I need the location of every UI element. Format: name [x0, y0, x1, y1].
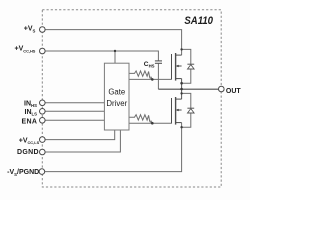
svg-text:OUT: OUT: [226, 88, 242, 95]
svg-text:INLS: INLS: [25, 109, 38, 117]
svg-text:Driver: Driver: [106, 99, 127, 108]
svg-text:+VCC,LS: +VCC,LS: [19, 137, 40, 145]
svg-text:-VS/PGND: -VS/PGND: [7, 169, 39, 177]
svg-text:Gate: Gate: [108, 87, 125, 96]
svg-text:CHS: CHS: [144, 61, 155, 69]
svg-text:ENA: ENA: [22, 118, 38, 125]
svg-text:DGND: DGND: [17, 149, 39, 156]
svg-text:+VS: +VS: [24, 26, 36, 34]
svg-text:INHS: INHS: [24, 101, 37, 109]
svg-text:+VCC,HS: +VCC,HS: [15, 46, 36, 54]
svg-text:SA110: SA110: [184, 15, 213, 27]
